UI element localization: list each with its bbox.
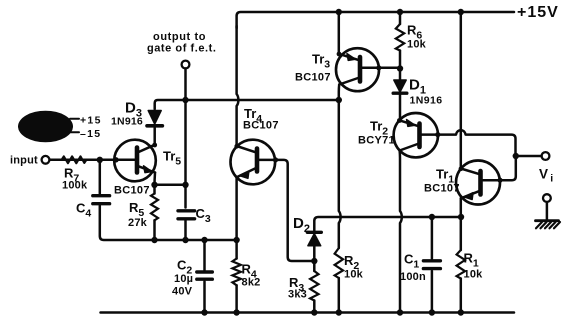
node D3 line / Tr3 collector line xyxy=(336,97,342,103)
node Tr3 emitter joint xyxy=(337,52,342,57)
svg-text:8k2: 8k2 xyxy=(242,277,261,289)
svg-text:C3: C3 xyxy=(196,206,211,225)
node Tr5 base lead / circle joint xyxy=(113,157,118,162)
transistor Tr3 emitter arrowhead xyxy=(347,54,355,61)
svg-text:40V: 40V xyxy=(172,286,193,298)
svg-text:D2: D2 xyxy=(293,215,310,235)
wire D2 cathode up and right to y=217 line, bumps over verticals, to C1/R1 xyxy=(314,217,461,231)
wire C4 top lead xyxy=(99,160,102,194)
wire Tr5 emitter horizontal to output line xyxy=(155,184,186,187)
svg-text:BC107: BC107 xyxy=(295,72,331,84)
wire C2 bottom to rail xyxy=(203,282,206,313)
transistor Tr5 circle xyxy=(114,140,156,182)
transistor Tr2 emitter arrowhead xyxy=(407,120,415,127)
wire Tr2 base line with hop over Tr1 collector, corner down to Vi node xyxy=(422,130,516,156)
resistor R4 zigzag xyxy=(232,259,240,286)
node rail / Tr2 collector xyxy=(397,309,403,315)
diode D1 xyxy=(393,80,407,93)
transistor Tr4 collector diagonal xyxy=(237,146,257,153)
node y217 / R1 Tr1 emitter xyxy=(458,214,464,220)
wire Tr3 emitter from rail xyxy=(338,12,341,54)
svg-text:gate of f.e.t.: gate of f.e.t. xyxy=(147,43,216,55)
wire R5 top lead xyxy=(153,185,156,194)
Vi output terminal xyxy=(542,152,550,160)
node R6 / Tr3 base / D1 xyxy=(397,65,403,71)
diode D3 xyxy=(147,111,162,126)
svg-text:C1: C1 xyxy=(404,252,419,271)
transistor Tr1 emitter diagonal with arrow xyxy=(461,191,480,199)
wire Tr4 emitter down through y240 to R4 xyxy=(235,178,238,259)
transistor Tr2 collector diagonal xyxy=(400,144,419,151)
wire R6 from rail xyxy=(399,12,402,24)
wire Tr3 collector down, hop y217, R2, rail xyxy=(339,85,341,249)
input terminal xyxy=(42,156,50,164)
node Tr5 collector joint xyxy=(152,143,157,148)
node y240 / R5 bottom xyxy=(151,237,157,243)
svg-text:10k: 10k xyxy=(344,269,364,281)
wire Tr1 emitter down to y217 R1 xyxy=(460,199,463,251)
node rail / C2 xyxy=(201,309,207,315)
resistor R3 zigzag xyxy=(310,271,318,301)
svg-text:C4: C4 xyxy=(76,201,91,220)
wire Tr1 collector vertical from rail xyxy=(460,12,463,169)
svg-text:Vi: Vi xyxy=(539,167,553,185)
svg-text:27k: 27k xyxy=(128,217,148,229)
wire C1 bottom lead xyxy=(431,271,434,313)
transistor Tr3 circle xyxy=(336,48,379,91)
transistor Tr4 emitter arrowhead xyxy=(240,172,249,179)
output terminal (gate of f.e.t.) xyxy=(182,61,190,69)
node Tr5 emitter / R5 xyxy=(151,182,157,188)
node top rail / Tr3 branch xyxy=(336,9,342,15)
node rail / R2 xyxy=(336,309,342,315)
capacitor C3 xyxy=(178,211,195,219)
wire bottom rail xyxy=(101,311,515,314)
wire C1 top lead xyxy=(431,217,434,259)
capacitor C1 xyxy=(423,261,440,269)
resistor R7 zigzag xyxy=(50,159,100,162)
node Tr2 emitter joint xyxy=(397,118,402,123)
wire C4 bottom lead to y=240 line xyxy=(100,206,237,240)
wire R5 bottom lead xyxy=(153,220,156,240)
wire R3 bottom lead xyxy=(313,301,316,313)
svg-text:D1: D1 xyxy=(409,77,426,97)
node Vi junction xyxy=(513,153,519,159)
wire D3 anode to node line y=100 xyxy=(155,100,339,109)
transistor Tr5 emitter arrowhead xyxy=(144,166,152,173)
svg-text:10µ: 10µ xyxy=(174,273,193,285)
node Tr4 collector joint xyxy=(234,144,239,149)
node y240 / C2 top xyxy=(201,237,207,243)
svg-text:input: input xyxy=(10,155,38,167)
node y240 / Tr4 emitter R4 xyxy=(233,237,239,243)
wire Tr4 collector vertical with hop at y=100 xyxy=(237,26,239,146)
node rail / C1 xyxy=(429,309,435,315)
wire C3 bottom to y=240 line xyxy=(184,221,187,241)
wire Tr2 collector down, hop y217, to rail xyxy=(400,151,402,313)
transistor Tr3 collector diagonal xyxy=(339,78,359,85)
wire D1 cathode to Tr2 emitter xyxy=(398,95,401,121)
transistor Tr2 circle xyxy=(394,113,438,157)
node Tr4 base / D2 R3 xyxy=(311,258,317,264)
node input junction / C4 xyxy=(97,157,103,163)
transistor Tr3 emitter diagonal with arrow pointing to bar xyxy=(339,54,360,61)
wire input to Tr5 base xyxy=(50,159,137,162)
wire output terminal vertical xyxy=(184,69,187,208)
transistor Tr1 base bar xyxy=(478,171,483,195)
node Tr1 collector joint xyxy=(459,166,464,171)
ground terminal circle xyxy=(543,194,551,202)
node top rail / Tr1 branch xyxy=(458,9,464,15)
wire D1 anode lead xyxy=(399,69,402,80)
svg-text:1N916: 1N916 xyxy=(410,95,443,107)
transistor Tr1 circle xyxy=(456,161,500,205)
svg-text:BC107: BC107 xyxy=(114,185,150,197)
node rail / R3 xyxy=(311,309,317,315)
node y240 / C3 bottom xyxy=(182,237,188,243)
resistor R1 zigzag xyxy=(457,250,465,279)
capacitor C2 xyxy=(197,272,213,279)
wire Tr4 base lead xyxy=(259,160,314,261)
wire R4 bottom to rail xyxy=(235,285,238,312)
node Tr4 base lead / circle joint xyxy=(273,157,278,162)
wire R3 top lead xyxy=(313,261,316,271)
svg-text:–15: –15 xyxy=(80,128,101,140)
svg-text:Tr3: Tr3 xyxy=(312,52,330,71)
wire R6 bottom to node xyxy=(399,51,402,69)
transistor Tr5 base bar xyxy=(135,148,140,173)
transistor Tr1 collector diagonal xyxy=(461,169,480,175)
transistor Tr2 base bar xyxy=(417,124,422,148)
node y217 / C1 xyxy=(429,214,435,220)
capacitor C4 xyxy=(93,196,110,204)
node D3 line / output terminal line xyxy=(182,97,188,103)
supply blob ellipse xyxy=(18,111,73,143)
svg-text:100n: 100n xyxy=(400,271,426,283)
ground wire xyxy=(546,202,549,220)
transistor Tr5 emitter diagonal with arrow xyxy=(139,166,156,172)
svg-text:1N916: 1N916 xyxy=(111,116,143,128)
resistor R2 zigzag xyxy=(335,248,343,278)
svg-text:10k: 10k xyxy=(407,39,427,51)
svg-text:R1: R1 xyxy=(464,251,479,270)
svg-text:+15: +15 xyxy=(80,115,102,127)
svg-text:3k3: 3k3 xyxy=(288,289,307,301)
svg-text:10k: 10k xyxy=(464,269,484,281)
transistor Tr2 emitter diagonal with arrow pointing to bar xyxy=(399,120,419,126)
wire C2 top lead xyxy=(203,240,206,270)
wire Tr5 collector to D3 xyxy=(153,128,156,145)
svg-text:BC107: BC107 xyxy=(424,183,460,195)
svg-text:BC107: BC107 xyxy=(243,120,279,132)
transistor Tr4 emitter diagonal with arrow xyxy=(237,168,257,178)
svg-text:100k: 100k xyxy=(62,180,88,192)
node Tr1 base lead / circle joint xyxy=(497,178,502,183)
node rail / R4 xyxy=(233,309,239,315)
transistor Tr4 circle xyxy=(231,140,276,185)
wire D2 anode down to node xyxy=(313,246,316,261)
transistor Tr5 collector diagonal xyxy=(138,145,155,153)
node rail / R1 xyxy=(458,309,464,315)
svg-text:Tr5: Tr5 xyxy=(163,149,181,168)
transistor Tr1 emitter arrowhead xyxy=(464,193,473,200)
resistor R5 zigzag xyxy=(151,194,158,221)
resistor R6 zigzag xyxy=(396,24,404,51)
wire Tr5 emitter down xyxy=(153,173,156,185)
transistor Tr4 base bar xyxy=(255,149,260,172)
wire node to Vi terminal xyxy=(516,155,542,158)
node output line / Tr5 emitter xyxy=(182,182,188,188)
wire Tr1 base lead up to Vi node xyxy=(483,156,516,180)
node top rail / R6 branch xyxy=(397,9,403,15)
svg-text:output to: output to xyxy=(153,31,206,43)
svg-text:BCY71: BCY71 xyxy=(358,135,395,147)
wire R1 bottom to rail xyxy=(460,279,463,313)
ground bar and hatching xyxy=(536,221,561,229)
wire R2 bottom to rail xyxy=(338,278,341,313)
svg-text:+15V: +15V xyxy=(517,4,559,21)
node Tr2 base lead / circle joint xyxy=(435,132,440,137)
node Tr3 base lead / circle joint xyxy=(376,65,381,70)
diode D2 xyxy=(307,232,321,245)
supply blob +15 lead xyxy=(70,118,79,120)
supply blob -15 lead xyxy=(70,131,79,133)
wire +15V top rail xyxy=(237,12,514,28)
transistor Tr3 base bar xyxy=(358,57,363,82)
wire Tr3 base lead xyxy=(362,67,400,70)
